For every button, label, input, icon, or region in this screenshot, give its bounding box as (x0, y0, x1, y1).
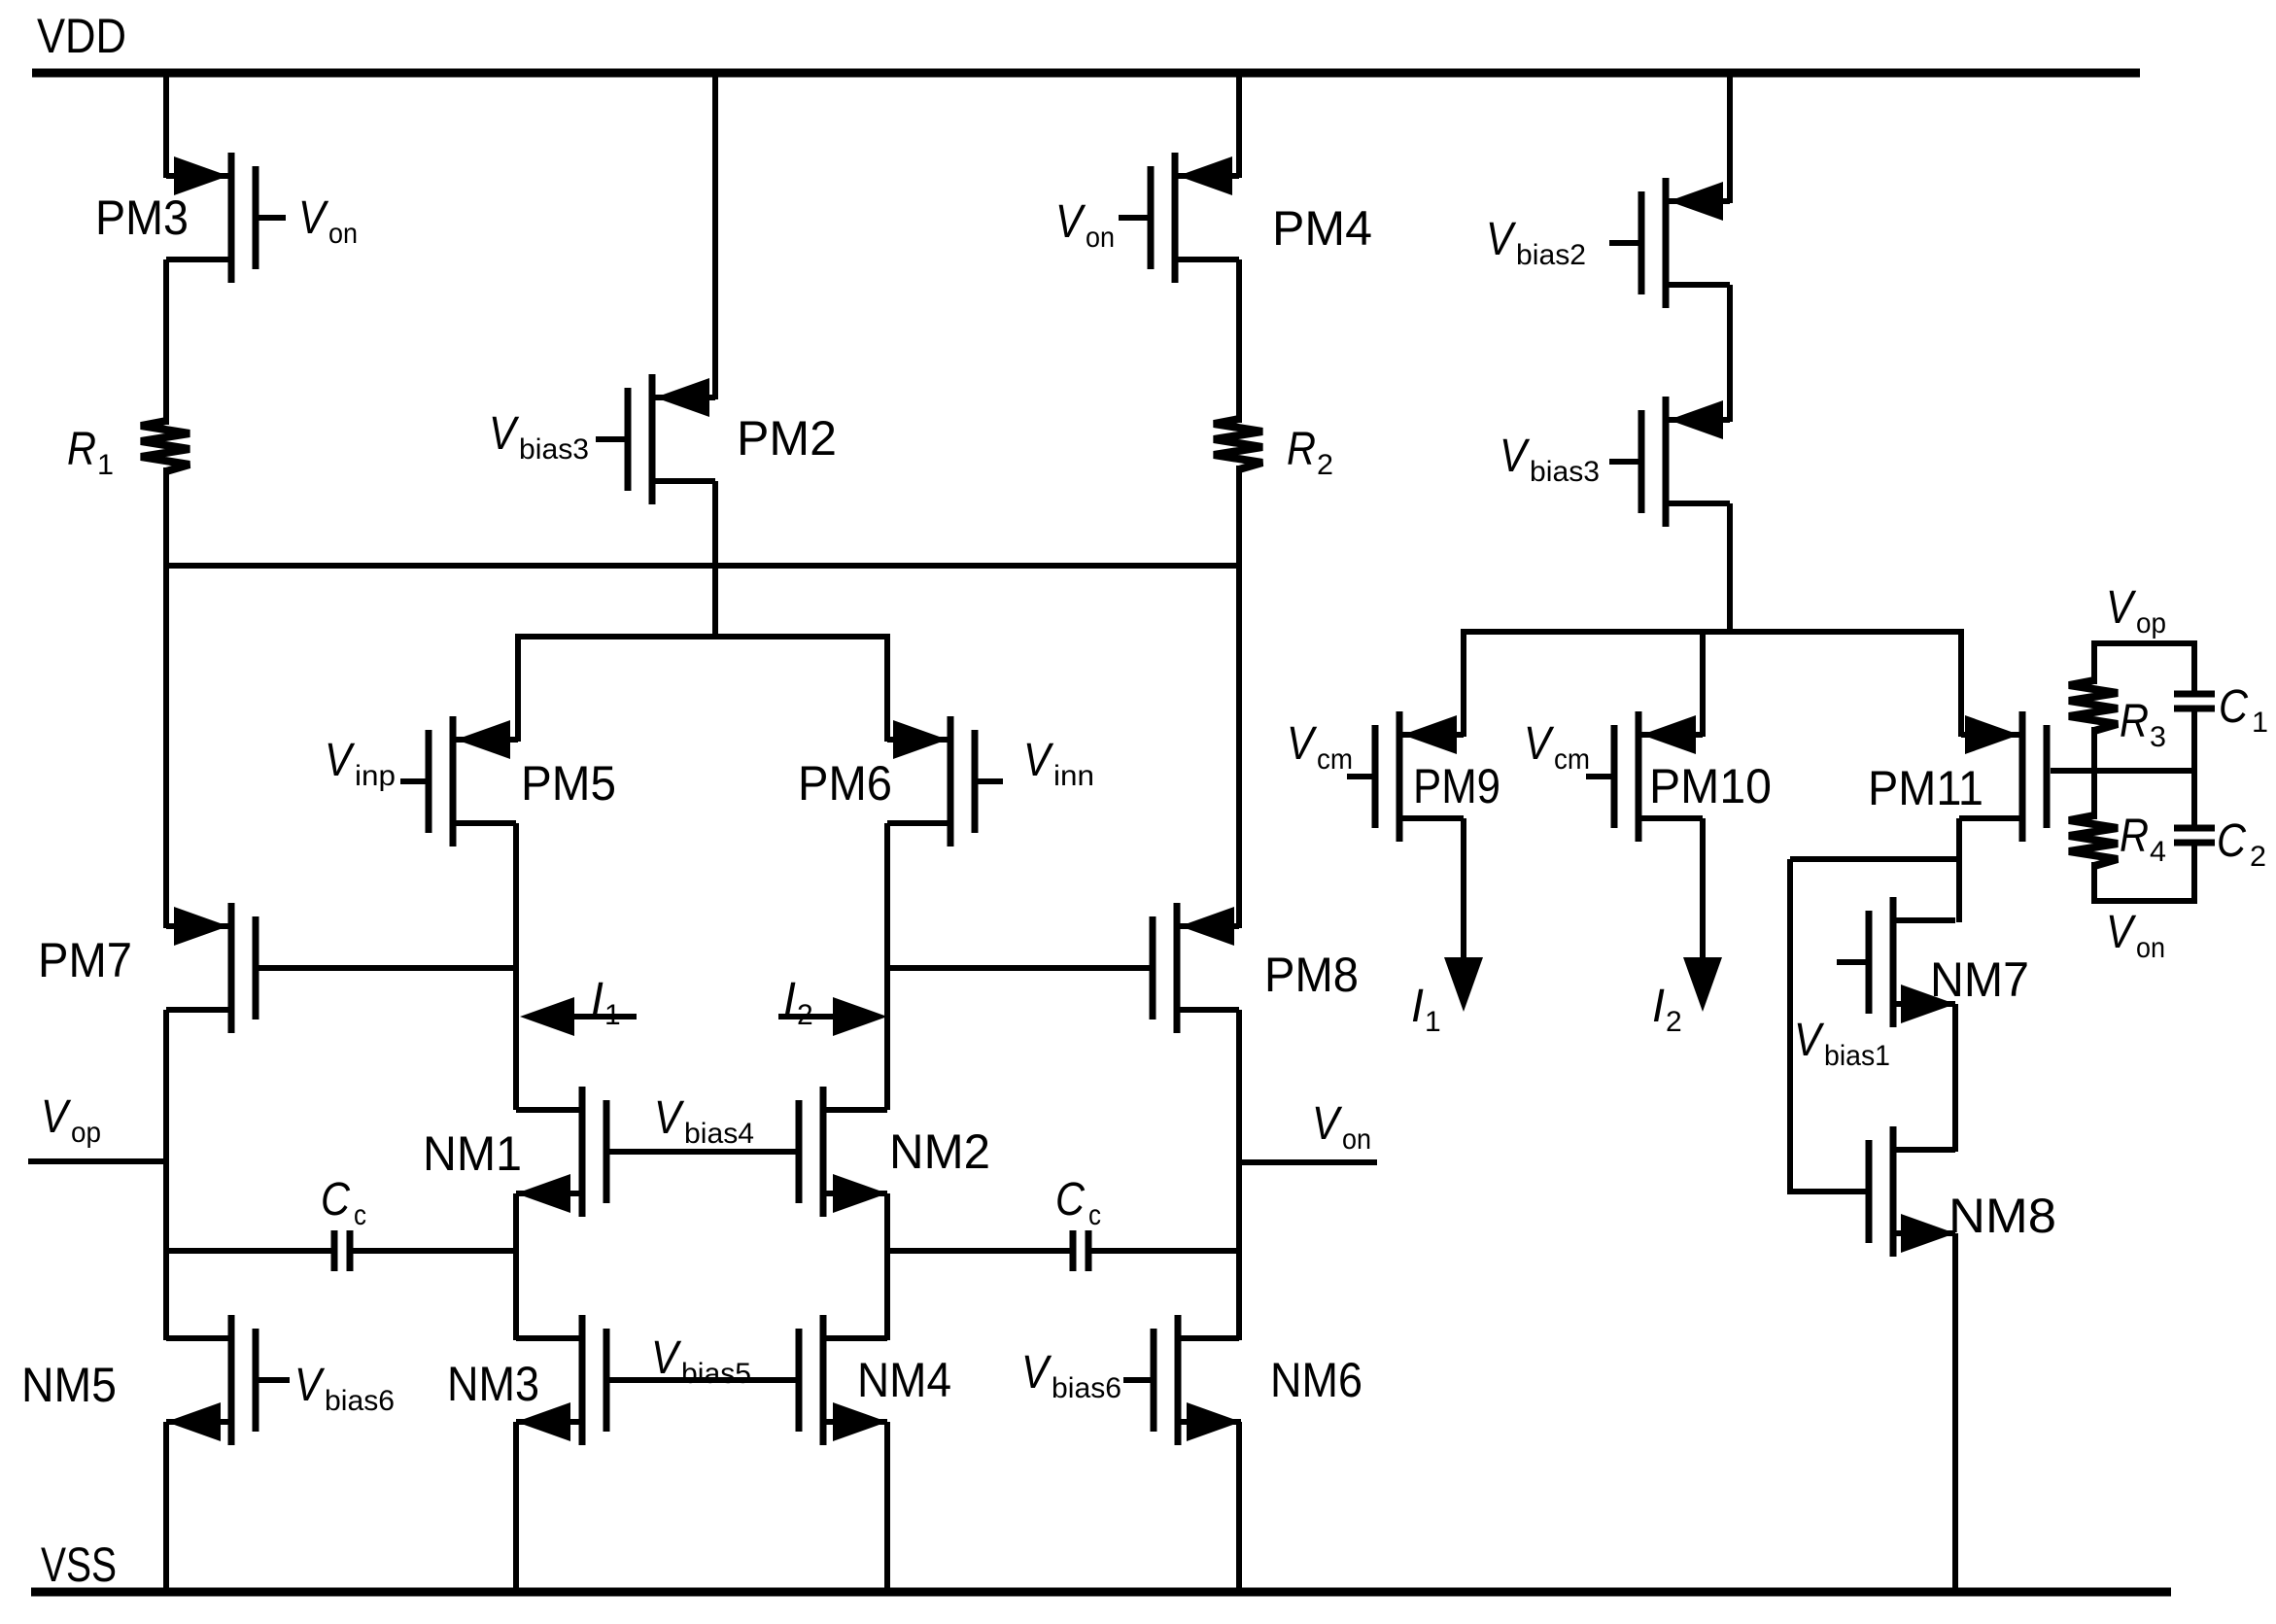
transistor NM2 (799, 1087, 887, 1217)
transistor PM9 (1347, 711, 1464, 842)
svg-text:V: V (1287, 718, 1317, 770)
transistor PM5 (400, 716, 518, 847)
label V_op left output (41, 1091, 101, 1149)
svg-text:1: 1 (2252, 707, 2268, 739)
wire R4 top lead (2091, 771, 2097, 819)
svg-text:PM9: PM9 (1413, 759, 1500, 813)
label V_op at compensation top (2106, 582, 2166, 639)
label V_bias1 (1794, 1015, 1890, 1072)
wire PM8 drain trunk (Von/NM6) (1236, 1010, 1242, 1340)
svg-text:2: 2 (1317, 449, 1333, 481)
svg-text:NM7: NM7 (1930, 952, 2029, 1007)
transistor PM2 (596, 374, 715, 504)
wire PM10 drain current I2 (1683, 818, 1722, 1012)
svg-text:bias3: bias3 (1530, 456, 1600, 488)
label Cc right (1055, 1174, 1101, 1231)
label PM3 (95, 190, 189, 245)
wire VDD to PM3 source (163, 73, 169, 178)
svg-text:1: 1 (1425, 1006, 1441, 1038)
node A line (R1-R2 rail) (166, 563, 1239, 569)
svg-text:2: 2 (2250, 841, 2266, 873)
svg-text:NM4: NM4 (857, 1353, 951, 1407)
wire MB3 drain to node B (1727, 503, 1733, 634)
svg-text:bias5: bias5 (681, 1358, 751, 1390)
label PM8 (1264, 948, 1359, 1002)
label I1 output (1411, 981, 1441, 1038)
transistor PM10 (1586, 711, 1703, 842)
transistor PM4 (1119, 153, 1239, 283)
svg-text:I: I (1411, 981, 1424, 1032)
svg-text:bias2: bias2 (1516, 239, 1586, 271)
svg-text:C: C (321, 1174, 350, 1226)
label V_bias6 at NM6 gate (1021, 1347, 1121, 1404)
wire compensation mid node to PM11 gate (2051, 768, 2194, 774)
svg-text:3: 3 (2150, 721, 2166, 753)
label V_bias5 (651, 1332, 751, 1390)
svg-text:PM5: PM5 (521, 756, 616, 811)
svg-text:PM2: PM2 (737, 411, 837, 466)
label PM9 (1413, 759, 1500, 813)
label R4 (2120, 811, 2166, 868)
wire V_bias5 gate line (609, 1377, 796, 1383)
transistor NM5 (166, 1315, 290, 1445)
wire R2 to node A to PM8 source (1236, 466, 1242, 928)
svg-text:PM6: PM6 (798, 756, 892, 811)
svg-text:bias6: bias6 (1052, 1372, 1121, 1404)
wire PM7 drain trunk (Vop/Cc/NM5) (163, 1010, 169, 1340)
transistor PM8 (1153, 903, 1239, 1033)
wire V_bias4 gate line (609, 1149, 796, 1155)
svg-text:cm: cm (1554, 743, 1590, 776)
node B line (PM9/PM10/PM11 sources) (1464, 629, 1961, 635)
svg-text:NM2: NM2 (889, 1124, 990, 1179)
wire PM7 gate to node (259, 965, 516, 971)
label NM1 (423, 1126, 522, 1181)
svg-text:V: V (1023, 735, 1053, 786)
svg-text:4: 4 (2150, 836, 2166, 868)
label NM3 (447, 1357, 539, 1411)
wire feedback PM11 drain to NM8 gate (1790, 859, 1959, 1194)
wire R3 bottom lead (2091, 727, 2097, 771)
svg-text:R: R (1287, 424, 1316, 475)
svg-text:2: 2 (797, 999, 813, 1031)
label PM10 (1649, 759, 1772, 813)
svg-text:R: R (2120, 696, 2149, 747)
wire R4 bottom lead (2091, 862, 2097, 901)
svg-text:op: op (2136, 607, 2166, 639)
capacitor C1 (2174, 694, 2215, 708)
transistor NM6 (1123, 1315, 1241, 1445)
svg-text:I: I (591, 974, 603, 1025)
wire node B to PM11 source (1958, 629, 1964, 737)
wire PM4 drain to R2 (1236, 259, 1242, 423)
label PM2 (737, 411, 837, 466)
label NM6 (1270, 1353, 1362, 1407)
label NM4 (857, 1353, 951, 1407)
wire PM3 drain to R1 (163, 259, 169, 425)
capacitor Cc right (887, 1230, 1239, 1271)
label NM7 (1930, 952, 2029, 1007)
svg-text:NM3: NM3 (447, 1357, 539, 1411)
transistor PM3 (166, 153, 286, 283)
svg-text:on: on (1342, 1123, 1371, 1156)
wire C2 top lead (2191, 771, 2197, 826)
svg-text:V: V (1486, 214, 1516, 265)
wire PM5 drain to NM1 drain (513, 823, 519, 1110)
wire PM6 drain to NM2 drain (884, 823, 890, 1110)
label VDD (37, 9, 126, 63)
label V_inn (1023, 735, 1094, 792)
svg-text:V: V (1055, 196, 1086, 248)
capacitor Cc left (166, 1230, 516, 1271)
svg-text:V: V (2106, 582, 2136, 634)
wire compensation bottom node (2091, 898, 2197, 904)
transistor PM6 (887, 716, 1003, 847)
wire Vop output stub (28, 1158, 166, 1164)
label V_bias4 (654, 1092, 754, 1150)
label V_on at compensation bottom (2106, 907, 2165, 964)
svg-text:V: V (651, 1332, 681, 1384)
wire NM7 source to NM8 drain (1952, 1004, 1958, 1152)
svg-text:V: V (41, 1091, 71, 1143)
transistor PM7 (166, 903, 256, 1033)
svg-text:NM6: NM6 (1270, 1353, 1362, 1407)
wire NM2 source to NM4 drain (884, 1193, 890, 1340)
svg-text:c: c (1088, 1199, 1101, 1231)
wire R3 top lead (2091, 643, 2097, 684)
label I2 annotation (783, 974, 813, 1031)
label PM6 (798, 756, 892, 811)
label V_inp (325, 735, 396, 792)
svg-text:PM7: PM7 (38, 933, 132, 987)
label NM5 (21, 1358, 117, 1412)
svg-text:I: I (783, 974, 796, 1025)
svg-text:VSS: VSS (41, 1538, 117, 1592)
wire PM11 drain to NM7 drain (1956, 818, 1962, 922)
wire VDD to Vbias2 transistor source (1727, 73, 1733, 203)
resistor R3 (2069, 680, 2118, 731)
svg-text:C: C (2219, 681, 2248, 733)
wire PM2 drain to tail node (712, 481, 718, 639)
svg-text:V: V (1312, 1098, 1342, 1150)
wire C2 bottom lead (2191, 845, 2197, 901)
transistor NM3 (516, 1315, 606, 1445)
svg-text:PM11: PM11 (1868, 761, 1983, 815)
power rail VSS (31, 1588, 2171, 1597)
svg-text:V: V (2106, 907, 2136, 958)
wire R1 to node A to PM7 source (163, 467, 169, 928)
svg-text:R: R (67, 424, 96, 475)
transistor PM11 (1959, 711, 2047, 842)
wire PM9 drain current I1 (1444, 818, 1483, 1012)
label NM2 (889, 1124, 990, 1179)
transistor MB2 (V_bias2 cascode) (1609, 178, 1730, 308)
label V_on right output (1312, 1098, 1371, 1156)
wire compensation top node (2091, 640, 2197, 646)
label I2 output (1652, 981, 1682, 1038)
label V_bias2 (1486, 214, 1586, 271)
svg-text:R: R (2120, 811, 2149, 862)
transistor NM1 (516, 1087, 606, 1217)
svg-text:1: 1 (604, 999, 621, 1031)
svg-text:NM5: NM5 (21, 1358, 117, 1412)
current annotation arrow I1 (520, 997, 637, 1036)
wire MB2 drain to MB3 source (1727, 285, 1733, 422)
svg-text:bias1: bias1 (1824, 1040, 1890, 1072)
svg-text:on: on (328, 218, 358, 250)
svg-text:PM3: PM3 (95, 190, 189, 245)
wire NM4 source to VSS (884, 1422, 890, 1592)
svg-text:VDD: VDD (37, 9, 126, 63)
label PM5 (521, 756, 616, 811)
transistor NM7 (1837, 897, 1955, 1027)
svg-text:PM10: PM10 (1649, 759, 1772, 813)
label V_bias3 at PM2 gate (489, 408, 589, 466)
label V_on at PM3 gate (298, 192, 358, 250)
svg-text:V: V (654, 1092, 684, 1144)
wire NM1 source to NM3 drain (513, 1193, 519, 1340)
label R3 (2120, 696, 2166, 753)
wire C1 top lead (2191, 643, 2197, 692)
svg-text:V: V (1794, 1015, 1824, 1066)
svg-text:PM4: PM4 (1272, 201, 1372, 256)
wire VDD to PM4 source (1236, 73, 1242, 178)
label Cc left (321, 1174, 366, 1231)
transistor NM8 (1869, 1126, 1955, 1257)
wire NM8 source to VSS (1952, 1233, 1958, 1592)
wire NM5 source to VSS (163, 1422, 169, 1592)
wire C1 bottom lead (2191, 710, 2197, 771)
svg-text:V: V (1524, 718, 1554, 770)
capacitor C2 (2174, 828, 2215, 843)
svg-text:V: V (325, 735, 355, 786)
label VSS (41, 1538, 117, 1592)
label C2 (2217, 815, 2266, 873)
wire Von output stub (1239, 1159, 1377, 1165)
wire node B to PM9 source (1461, 629, 1466, 737)
svg-text:on: on (1086, 222, 1115, 254)
svg-text:NM1: NM1 (423, 1126, 522, 1181)
svg-text:inp: inp (355, 760, 396, 792)
transistor NM4 (799, 1315, 887, 1445)
label PM4 (1272, 201, 1372, 256)
wire PM8 gate to node (887, 965, 1150, 971)
label V_cm at PM10 (1524, 718, 1590, 776)
wire NM3 source to VSS (513, 1422, 519, 1592)
wire node B to PM10 source (1700, 629, 1706, 737)
resistor R4 (2069, 815, 2118, 866)
wire tail node (518, 634, 887, 639)
svg-text:bias4: bias4 (684, 1118, 754, 1150)
svg-text:inn: inn (1053, 760, 1094, 792)
svg-text:V: V (298, 192, 328, 244)
svg-text:NM8: NM8 (1948, 1189, 2056, 1243)
svg-text:2: 2 (1666, 1006, 1682, 1038)
svg-text:bias6: bias6 (325, 1385, 395, 1417)
svg-text:bias3: bias3 (519, 433, 589, 466)
wire tail to PM5 source (515, 634, 521, 742)
resistor R1 (141, 421, 190, 471)
label PM7 (38, 933, 132, 987)
svg-text:V: V (489, 408, 519, 460)
label R2 (1287, 424, 1333, 481)
svg-text:C: C (1055, 1174, 1085, 1226)
svg-text:PM8: PM8 (1264, 948, 1359, 1002)
svg-text:1: 1 (97, 449, 114, 481)
svg-text:V: V (1500, 431, 1530, 482)
wire tail to PM6 source (884, 634, 890, 742)
svg-text:C: C (2217, 815, 2246, 867)
label C1 (2219, 681, 2268, 739)
label PM11 (1868, 761, 1983, 815)
resistor R2 (1214, 419, 1262, 469)
svg-text:op: op (71, 1117, 101, 1149)
svg-text:I: I (1652, 981, 1665, 1032)
svg-text:V: V (294, 1360, 325, 1411)
label R1 (67, 424, 114, 481)
label V_cm at PM9 (1287, 718, 1353, 776)
label NM8 (1948, 1189, 2056, 1243)
label V_on at PM4 gate (1055, 196, 1115, 254)
label V_bias6 at NM5 gate (294, 1360, 395, 1417)
label V_bias3 right (1500, 431, 1600, 488)
power rail VDD (32, 69, 2140, 78)
wire NM6 source to VSS (1236, 1422, 1242, 1592)
label I1 annotation (591, 974, 621, 1031)
wire VDD to PM2 source (712, 73, 718, 399)
current annotation arrow I2 (778, 997, 887, 1036)
svg-text:c: c (354, 1199, 366, 1231)
svg-text:on: on (2136, 932, 2165, 964)
transistor MB3 (V_bias3 cascode) (1609, 397, 1730, 527)
svg-text:cm: cm (1317, 743, 1353, 776)
svg-text:V: V (1021, 1347, 1052, 1399)
